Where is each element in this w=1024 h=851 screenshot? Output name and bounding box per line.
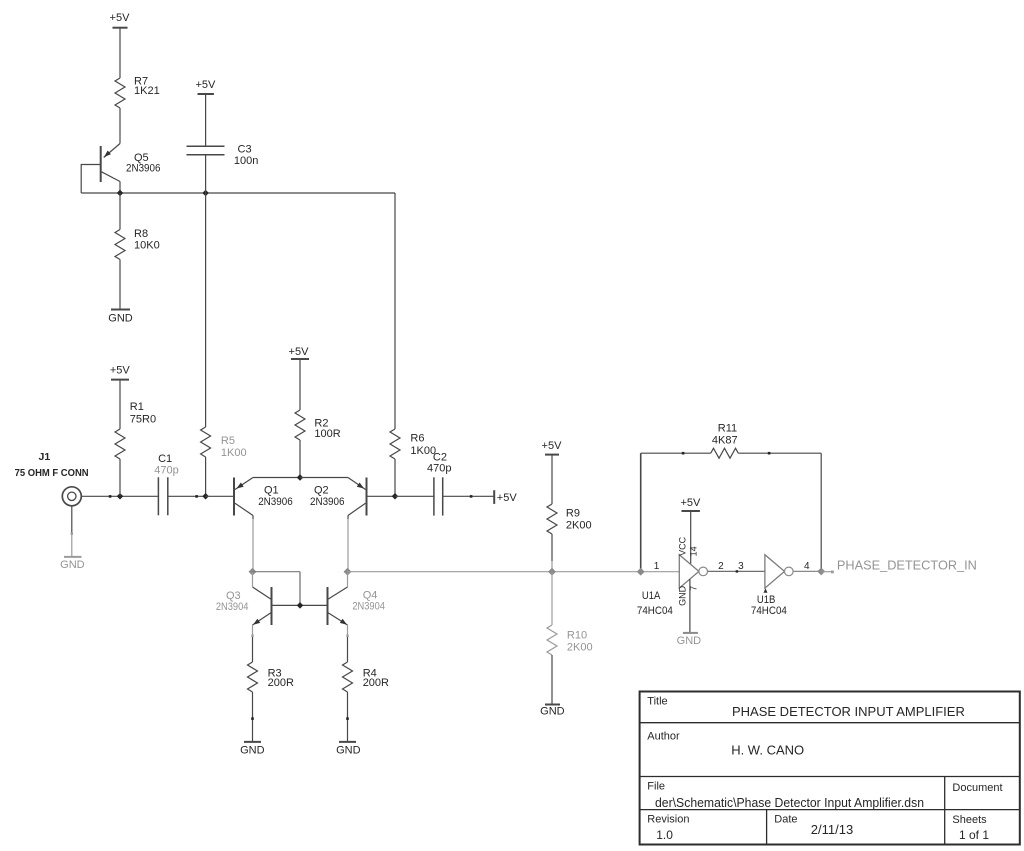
pin C1 end marker	[195, 495, 198, 498]
svg-text:C1: C1	[158, 453, 172, 465]
svg-text:R9: R9	[566, 508, 580, 520]
svg-text:R5: R5	[221, 435, 235, 447]
svg-text:4: 4	[804, 561, 810, 572]
svg-text:Author: Author	[647, 731, 680, 743]
wire C3 to rail	[205, 155, 207, 193]
power +5V (R7 top)	[110, 12, 131, 28]
node emitter junction	[297, 474, 304, 481]
wire rail to R5	[205, 193, 207, 427]
svg-text:200R: 200R	[268, 677, 294, 689]
wire Q4 emitter to R4	[347, 625, 349, 637]
title block outer border	[640, 692, 1020, 845]
svg-text:10K0: 10K0	[134, 240, 160, 252]
node Q3/Q4 base junction	[297, 602, 304, 609]
resistor R1	[115, 401, 156, 459]
svg-text:100R: 100R	[314, 428, 340, 440]
svg-text:+5V: +5V	[289, 346, 310, 358]
node C3 junction	[202, 190, 209, 197]
wire Q1 base	[206, 495, 234, 497]
wire C2 to +5V	[443, 495, 494, 497]
wire +5V to C3	[205, 94, 207, 146]
wire C1 to node	[168, 495, 206, 497]
svg-text:4K87: 4K87	[712, 435, 738, 447]
title block divider title/author	[640, 722, 1020, 724]
svg-text:75R0: 75R0	[130, 414, 156, 426]
title block divider date column	[766, 810, 768, 845]
wire R3 to GND	[252, 692, 254, 742]
svg-text:Q2: Q2	[314, 484, 329, 496]
resistor R5	[201, 427, 247, 459]
svg-text:C3: C3	[238, 143, 252, 155]
wire output stub	[821, 571, 833, 573]
wire R11 rail	[641, 452, 711, 454]
wire R1 to node	[119, 459, 121, 496]
wire Q5 base feedback	[81, 165, 100, 194]
ground (R10)	[540, 705, 565, 718]
node Q5 collector junction	[117, 190, 124, 197]
svg-text:PHASE DETECTOR INPUT AMPLIFIER: PHASE DETECTOR INPUT AMPLIFIER	[732, 704, 965, 719]
wire Q4 collector vertical	[347, 572, 349, 587]
wire node to R8	[119, 193, 121, 230]
resistor R10	[547, 625, 593, 655]
wire node to C2	[395, 495, 435, 497]
svg-text:74HC04: 74HC04	[751, 605, 787, 617]
wire Q3 base link	[253, 571, 301, 573]
svg-text:75 OHM F CONN: 75 OHM F CONN	[15, 467, 89, 479]
ground (U1A pin 7)	[677, 633, 702, 647]
svg-text:R1: R1	[130, 401, 144, 413]
capacitor C3	[187, 143, 259, 167]
svg-text:PHASE_DETECTOR_IN: PHASE_DETECTOR_IN	[837, 557, 977, 572]
node J1/R1 junction	[117, 493, 124, 500]
wire J1 to C1	[81, 495, 158, 497]
transistor Q3 2N3904	[216, 587, 272, 625]
svg-text:H. W. CANO: H. W. CANO	[731, 743, 804, 758]
wire R9 to bus	[551, 534, 553, 561]
svg-text:470p: 470p	[154, 465, 178, 477]
svg-text:2: 2	[718, 561, 724, 572]
svg-text:2K00: 2K00	[567, 642, 593, 654]
svg-text:Revision: Revision	[647, 813, 689, 825]
wire grey bus Q4 to U1A	[348, 571, 680, 573]
svg-text:2K00: 2K00	[566, 520, 592, 532]
capacitor C1	[154, 453, 178, 515]
svg-text:File: File	[647, 781, 665, 793]
node U1B output junction (grey)	[817, 567, 825, 575]
svg-text:GND: GND	[108, 313, 133, 325]
wire J1 ground stub	[71, 506, 73, 534]
svg-text:Q1: Q1	[264, 484, 279, 496]
wire Q2 collector down	[347, 516, 349, 520]
power +5V (R1 top)	[110, 364, 131, 379]
svg-text:Sheets: Sheets	[952, 814, 987, 826]
svg-text:+5V: +5V	[195, 79, 216, 91]
wire +5V to R9	[551, 455, 553, 504]
svg-text:2N3904: 2N3904	[216, 601, 249, 613]
svg-text:+5V: +5V	[110, 364, 131, 376]
wire U1A output to U1B	[708, 570, 765, 572]
wire R10 to GND	[551, 655, 553, 705]
svg-text:1K21: 1K21	[134, 85, 160, 97]
svg-text:Title: Title	[647, 696, 667, 708]
op-amp U1A 74HC04 inverter	[637, 555, 708, 617]
op-amp U1B 74HC04 inverter	[751, 555, 793, 617]
svg-text:+5V: +5V	[680, 497, 701, 509]
svg-text:470p: 470p	[427, 463, 451, 475]
power +5V (C3 top)	[195, 79, 216, 94]
wire rail corner down to R6	[394, 193, 396, 429]
wire U1B output	[793, 570, 821, 572]
svg-text:1: 1	[654, 561, 660, 572]
transistor Q2 2N3906	[310, 478, 367, 516]
wire bus to R10	[551, 572, 553, 625]
capacitor C2	[427, 452, 451, 516]
wire Q3 collector vertical	[252, 572, 254, 587]
resistor R11	[711, 423, 739, 459]
svg-text:Document: Document	[952, 782, 1002, 794]
wire R5 to node	[205, 457, 207, 496]
pin 7 GND wire	[689, 579, 691, 633]
wire Q3 base	[272, 604, 300, 606]
pin J1 end marker	[109, 495, 112, 498]
wire +5V to R7	[119, 28, 121, 78]
wire rail node row y193	[81, 192, 395, 194]
svg-text:R10: R10	[567, 630, 587, 642]
pin 14 VCC wire	[690, 511, 692, 564]
resistor R8	[115, 228, 160, 260]
ground (R3)	[240, 742, 265, 757]
svg-text:2N3906: 2N3906	[310, 496, 345, 508]
svg-text:GND: GND	[336, 745, 361, 757]
svg-text:3: 3	[738, 561, 744, 572]
svg-text:U1A: U1A	[642, 590, 661, 602]
svg-text:GND: GND	[540, 706, 565, 718]
svg-text:14: 14	[689, 546, 699, 556]
svg-text:1 of 1: 1 of 1	[959, 828, 989, 842]
wire R4 to GND	[347, 692, 349, 742]
title block divider document column	[944, 777, 946, 845]
wire +5V to R2	[299, 359, 301, 410]
resistor R3	[248, 662, 294, 692]
wire R6 to node	[394, 459, 396, 496]
resistor R7	[115, 75, 160, 108]
svg-text:1.0: 1.0	[656, 828, 673, 842]
svg-text:74HC04: 74HC04	[637, 605, 673, 617]
svg-text:1K00: 1K00	[221, 447, 247, 459]
pin C2 end marker	[470, 495, 473, 498]
resistor R2	[295, 410, 341, 440]
svg-text:der\Schematic\Phase Detector I: der\Schematic\Phase Detector Input Ampli…	[655, 796, 924, 810]
wire Q4 base	[300, 604, 327, 606]
svg-text:VCC: VCC	[678, 536, 688, 556]
power +5V (right of C2)	[494, 490, 517, 504]
wire Q3 emitter to R3	[252, 625, 254, 637]
svg-text:+5V: +5V	[497, 492, 518, 504]
svg-text:+5V: +5V	[542, 440, 563, 452]
svg-text:GND: GND	[60, 559, 85, 571]
node Q1/Q3 collector junction (grey)	[249, 568, 257, 576]
svg-text:2/11/13: 2/11/13	[811, 822, 853, 837]
svg-text:Date: Date	[774, 813, 797, 825]
svg-text:100n: 100n	[234, 155, 258, 167]
svg-text:R11: R11	[718, 423, 737, 435]
svg-text:R8: R8	[134, 228, 148, 240]
wire R8 to GND	[119, 260, 121, 310]
svg-text:2N3906: 2N3906	[258, 496, 293, 508]
node R9/R10 junction (grey)	[548, 568, 556, 576]
power +5V (U1A VCC)	[680, 497, 701, 511]
resistor R6	[390, 429, 436, 459]
transistor Q5 2N3906	[101, 144, 161, 183]
wire +5V to R1	[119, 380, 121, 429]
title block divider author/file	[640, 776, 1020, 778]
wire R7 to Q5 emitter	[119, 108, 121, 144]
resistor R9	[547, 504, 592, 534]
svg-text:+5V: +5V	[110, 12, 131, 24]
node R6/Q2/C2 junction	[392, 493, 399, 500]
wire Q1 collector down	[252, 516, 254, 520]
connector J1 75 OHM F CONN	[15, 451, 89, 506]
ground (R4)	[336, 742, 361, 757]
svg-text:GND: GND	[240, 745, 265, 757]
svg-text:2N3904: 2N3904	[352, 601, 385, 613]
node U1A input junction (grey)	[637, 568, 645, 576]
transistor Q1 2N3906	[234, 478, 293, 516]
wire R11 feedback right vertical	[820, 453, 822, 571]
title block divider file/revision	[640, 809, 1020, 811]
ground (R8)	[108, 310, 133, 325]
wire Q2 base	[367, 495, 395, 497]
svg-text:R6: R6	[410, 433, 424, 445]
node Q2/Q4 collector junction (grey)	[344, 568, 352, 576]
wire Q2 emitter to center node	[300, 477, 348, 479]
resistor R4	[343, 662, 390, 692]
wire Q5 collector down	[119, 182, 121, 194]
power +5V (R2 top)	[289, 346, 310, 359]
svg-text:2N3906: 2N3906	[126, 162, 161, 174]
svg-text:7: 7	[688, 586, 698, 591]
svg-text:GND: GND	[677, 635, 702, 647]
ground (J1)	[60, 557, 85, 571]
wire R2 to emitter node	[299, 440, 301, 478]
svg-text:J1: J1	[39, 451, 51, 463]
transistor Q4 2N3904	[328, 587, 385, 625]
wire Q1 emitter to center node	[253, 477, 300, 479]
svg-text:GND: GND	[678, 585, 688, 606]
wire R11 feedback left vertical	[640, 453, 642, 572]
pin output end marker	[831, 571, 834, 574]
node R5/C1/Q1 junction	[202, 493, 209, 500]
svg-text:200R: 200R	[363, 677, 389, 689]
power +5V (R9 top)	[542, 440, 563, 455]
